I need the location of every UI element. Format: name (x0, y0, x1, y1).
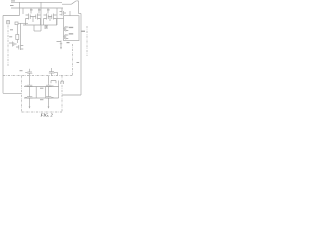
svg-text:FIG. 2: FIG. 2 (41, 113, 54, 118)
